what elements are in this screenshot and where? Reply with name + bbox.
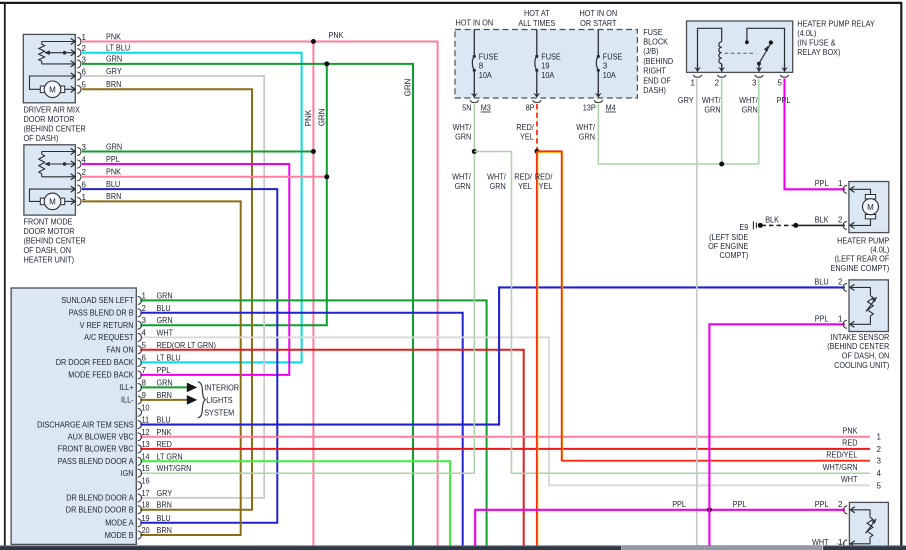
wire PPL branch up x709.4 -> intake sensor pin1 [709, 324, 845, 510]
wire BLU control head pin11 -> up x499.1 -> intake sensor pin2 [140, 287, 845, 424]
svg-text:LIGHTS: LIGHTS [206, 396, 232, 405]
M1 pot lead pin 1 [42, 41, 75, 43]
svg-text:LT GRN: LT GRN [157, 452, 183, 461]
control head pin 6 connector bracket [138, 358, 142, 366]
svg-text:GRN: GRN [106, 55, 122, 64]
control head pin 3 connector bracket [138, 321, 142, 329]
svg-text:BLU: BLU [814, 278, 828, 287]
intake sensor pin2 connector [850, 284, 854, 290]
M2 pot wiper pin 4 [48, 163, 75, 165]
wire PNK branch at x313.4 down to bottom (junction at top) [312, 42, 314, 547]
wire WHT/GRN relay pin3 down to y164 [758, 79, 760, 165]
M1 pin 2 connector symbol + labels [71, 50, 75, 56]
intake sensor thermistor [850, 287, 871, 295]
svg-text:M: M [49, 86, 56, 95]
svg-text:(BEHIND CENTER: (BEHIND CENTER [24, 236, 86, 245]
wire BLK heater pump pin2 solid segment [796, 224, 845, 226]
svg-text:E9: E9 [739, 223, 748, 232]
wire PPL sunload row from bottom x475.2 -> right -> sunload sensor pin2 [475, 510, 845, 546]
svg-text:SYSTEM: SYSTEM [204, 409, 234, 418]
svg-text:FUSE: FUSE [541, 52, 561, 61]
wire BRN M1 pin5 -> down x252 -> control head pin18 [82, 89, 252, 509]
svg-text:DR BLEND DOOR A: DR BLEND DOOR A [66, 494, 134, 503]
svg-text:OF ENGINE: OF ENGINE [708, 242, 748, 251]
svg-text:GRY: GRY [157, 489, 173, 498]
svg-text:(BEHIND CENTER: (BEHIND CENTER [24, 124, 86, 133]
control head pin 9 connector bracket [138, 396, 142, 404]
sunload sensor pin2 connector [850, 507, 854, 513]
control head pin 15 connector bracket [138, 469, 142, 477]
heater pump motor internals [850, 189, 871, 196]
svg-text:BLU: BLU [106, 180, 120, 189]
svg-text:1: 1 [690, 78, 695, 87]
junction dot2 x326.8 y176.8 [324, 174, 329, 179]
svg-text:16: 16 [142, 477, 151, 486]
fuse F3 element [597, 30, 599, 56]
svg-text:2: 2 [142, 304, 147, 313]
control head pin 19 connector bracket [138, 519, 142, 527]
svg-text:12: 12 [142, 428, 151, 437]
relay switch fixed contact from pin5 [747, 28, 785, 72]
wire RED control head pin5 -> down x523.7 to bottom [140, 350, 523, 546]
fuse F8 exit arrow + connector [471, 93, 478, 98]
ground E9 symbol bars [752, 221, 754, 229]
wire PPL branch down x709.4 to bottom [708, 510, 710, 546]
svg-text:5: 5 [142, 341, 147, 350]
svg-text:10A: 10A [541, 71, 555, 80]
svg-text:2: 2 [715, 78, 720, 87]
svg-text:INTERIOR: INTERIOR [204, 384, 239, 393]
control head pin 16 connector bracket [138, 482, 142, 490]
svg-text:PPL: PPL [672, 500, 686, 509]
wire RED control head pin13 -> right edge row 2 [140, 448, 870, 450]
svg-text:6: 6 [82, 67, 87, 76]
wire RED/YEL branch -> down x561.6 -> right edge row 3 (red) [537, 151, 870, 460]
svg-text:BLOCK: BLOCK [643, 38, 668, 47]
svg-text:10A: 10A [479, 71, 493, 80]
svg-text:PNK: PNK [106, 32, 122, 41]
svg-text:14: 14 [142, 452, 151, 461]
wire BRN M2 pin1 -> down x240.7 -> control head pin20 [82, 201, 241, 535]
wire PPL relay pin5 -> heater pump pin1 [785, 79, 845, 190]
svg-text:GRN: GRN [157, 316, 173, 325]
svg-text:PPL: PPL [106, 155, 120, 164]
fuse F19 element [536, 30, 538, 56]
front mode door motor M2 box [24, 145, 76, 215]
heater pump pin1 connector [850, 186, 854, 192]
svg-text:PNK: PNK [157, 428, 173, 437]
svg-text:1: 1 [877, 433, 882, 442]
svg-text:BRN: BRN [106, 80, 122, 89]
svg-text:4: 4 [877, 469, 882, 478]
wire GRN control head pin8 ILL+ [140, 386, 187, 388]
control head pin 11 connector bracket [138, 421, 142, 429]
svg-text:1: 1 [838, 179, 843, 188]
svg-text:(LEFT SIDE: (LEFT SIDE [709, 233, 748, 242]
control head pin 8 connector bracket [138, 383, 142, 391]
svg-text:4: 4 [142, 328, 147, 337]
relay pin 5 arrow/connector/number [781, 67, 788, 72]
svg-text:FUSE: FUSE [479, 52, 499, 61]
svg-text:OF DASH, ON: OF DASH, ON [24, 246, 72, 255]
svg-text:(4.0L): (4.0L) [870, 246, 889, 255]
svg-text:(BEHIND CENTER: (BEHIND CENTER [827, 342, 889, 351]
svg-text:V REF RETURN: V REF RETURN [80, 321, 134, 330]
svg-text:2: 2 [838, 500, 843, 509]
svg-text:10A: 10A [603, 71, 617, 80]
wire BRN control head pin9 ILL- [140, 399, 187, 401]
svg-text:M: M [867, 203, 874, 212]
wire GRN M2 pin3 ends at junction dot1 on PNK vertical [82, 151, 313, 153]
wire BLU M2 pin6 -> down x277.3 -> control head pin19 [82, 189, 277, 523]
svg-text:GRN: GRN [106, 142, 122, 151]
M1 motor symbol [30, 76, 75, 89]
svg-text:COMPT): COMPT) [720, 251, 749, 260]
wire WHT/GRN branch -> down x511.5 -> right edge row 4 [474, 152, 870, 474]
svg-text:PPL: PPL [157, 366, 171, 375]
svg-text:GRN: GRN [455, 182, 471, 191]
svg-text:1: 1 [838, 314, 843, 323]
svg-text:FUSE: FUSE [643, 28, 663, 37]
junction dot1 x313.4 y151.5 [311, 149, 316, 154]
relay coil [719, 42, 722, 64]
svg-text:ALL TIMES: ALL TIMES [518, 19, 555, 28]
svg-text:6: 6 [142, 353, 147, 362]
wire BLU control head pin2 -> down x462.7 to bottom [140, 313, 462, 546]
svg-text:DASH): DASH) [643, 86, 666, 95]
svg-text:PNK: PNK [106, 168, 122, 177]
svg-text:GRY: GRY [106, 67, 122, 76]
svg-text:INTAKE SENSOR: INTAKE SENSOR [831, 333, 890, 342]
svg-text:OF DASH): OF DASH) [24, 134, 59, 143]
svg-text:RED/YEL: RED/YEL [826, 450, 858, 459]
svg-text:BLK: BLK [815, 215, 829, 224]
wire GRY M1 pin6 -> down x264.2 -> control head pin17 [82, 76, 264, 498]
M2 pot lead pin 3 [42, 151, 75, 153]
svg-text:3: 3 [752, 78, 757, 87]
svg-text:(J/B): (J/B) [643, 47, 659, 56]
page border frame right [900, 2, 902, 546]
svg-text:GRN: GRN [455, 133, 471, 142]
control head pin 10 connector bracket [138, 408, 142, 416]
wire LT GRN control head pin14 -> down x450 to bottom [140, 461, 450, 546]
M1 pin 1 connector symbol + labels [71, 38, 75, 44]
svg-text:PPL: PPL [815, 314, 829, 323]
wire PNK M1 pin1 -> down at x437.6 to bottom [82, 42, 438, 547]
wire WHT/GRN fuse3 13P -> down x598.3 -> right to relay pin3 [598, 104, 759, 164]
svg-text:(LEFT REAR OF: (LEFT REAR OF [835, 255, 890, 264]
svg-text:BRN: BRN [157, 391, 173, 400]
svg-text:5: 5 [777, 78, 782, 87]
control head pin 5 connector bracket [138, 346, 142, 354]
sunload sensor pin1 connector [850, 541, 854, 547]
svg-text:8: 8 [479, 62, 484, 71]
svg-text:GRN: GRN [404, 78, 413, 96]
heater pump relay box [687, 21, 793, 72]
junction dot PPL x709.4 y509.8 [707, 507, 712, 512]
M2 pin 4 connector symbol + labels [71, 161, 75, 167]
svg-text:OF DASH, ON: OF DASH, ON [842, 352, 890, 361]
svg-text:PNK: PNK [843, 427, 859, 436]
control head pin 7 connector bracket [138, 371, 142, 379]
svg-text:GRN: GRN [157, 291, 173, 300]
svg-text:5N: 5N [462, 104, 471, 113]
svg-text:WHT/: WHT/ [487, 172, 506, 181]
control head pin 20 connector bracket [138, 531, 142, 539]
M2 pin 6 connector symbol + labels [71, 186, 75, 192]
svg-text:PPL: PPL [815, 500, 829, 509]
svg-text:BRN: BRN [157, 526, 173, 535]
svg-text:ENGINE COMPT): ENGINE COMPT) [831, 264, 890, 273]
driver air mix door motor M1 box [23, 34, 75, 102]
svg-text:BRN: BRN [106, 192, 122, 201]
svg-text:17: 17 [142, 489, 151, 498]
svg-text:BLU: BLU [157, 416, 171, 425]
M1 potentiometer [39, 44, 45, 61]
svg-text:PNK: PNK [329, 31, 345, 40]
relay switch arm from pin3 [758, 64, 760, 72]
ground E9 terminal dot [758, 223, 763, 228]
wire RED/YEL branch -> down x561.6 -> right edge row 3 (yellow stripe) [538, 152, 870, 461]
M2 pin 3 connector symbol + labels [71, 148, 75, 154]
svg-text:WHT/GRN: WHT/GRN [823, 463, 858, 472]
wire GRY relay pin1 down to bottom [696, 79, 698, 547]
svg-text:(4.0L): (4.0L) [797, 29, 816, 38]
svg-text:SUNLOAD SEN LEFT: SUNLOAD SEN LEFT [61, 296, 133, 305]
svg-text:9: 9 [142, 391, 147, 400]
svg-text:(IN FUSE &: (IN FUSE & [797, 39, 836, 48]
svg-text:1: 1 [142, 291, 147, 300]
control head pin 17 connector bracket [138, 494, 142, 502]
M2 pot lead pin 2 [42, 176, 75, 178]
svg-text:BLU: BLU [157, 514, 171, 523]
intake sensor pin1 connector [850, 321, 854, 327]
svg-text:(BEHIND: (BEHIND [643, 57, 673, 66]
wire WHT/GRN relay pin2 down to junction y164 [721, 79, 723, 165]
M2 potentiometer [39, 154, 45, 174]
svg-text:10: 10 [142, 403, 151, 412]
svg-text:20: 20 [142, 526, 151, 535]
svg-text:ILL-: ILL- [121, 396, 134, 405]
control head pin 13 connector bracket [138, 445, 142, 453]
wire BLK dashed segment to ground E9 [762, 224, 796, 226]
svg-text:3: 3 [603, 62, 608, 71]
svg-text:RED(OR LT GRN): RED(OR LT GRN) [157, 341, 217, 350]
svg-text:15: 15 [142, 464, 151, 473]
wire PNK M2 pin2 ends at junction dot2 on GRN vertical [82, 176, 327, 178]
svg-text:MODE FEED BACK: MODE FEED BACK [68, 371, 134, 380]
svg-text:13P: 13P [583, 104, 596, 113]
junction dot BLK x795.8 [793, 223, 798, 228]
svg-text:GRN: GRN [490, 182, 506, 191]
junction dot RED/YEL x537 y151.3 [535, 149, 540, 154]
svg-text:HEATER PUMP: HEATER PUMP [837, 236, 889, 245]
svg-text:BRN: BRN [157, 501, 173, 510]
svg-text:WHT/: WHT/ [452, 172, 471, 181]
svg-text:PNK: PNK [304, 109, 313, 126]
junction dot WHT/GRN x721.7 y164 [719, 162, 724, 167]
svg-text:A/C REQUEST: A/C REQUEST [84, 333, 134, 342]
wire RED/YEL main below junction to bottom (yellow stripe) [537, 152, 539, 546]
wire RED/YEL main below junction to bottom (red) [536, 151, 538, 546]
svg-text:FAN ON: FAN ON [106, 346, 133, 355]
svg-text:RED/: RED/ [514, 172, 532, 181]
svg-text:M3: M3 [481, 104, 492, 113]
svg-text:GRN: GRN [317, 108, 326, 126]
svg-text:RED/: RED/ [516, 123, 534, 132]
svg-text:2: 2 [838, 278, 843, 287]
svg-text:WHT: WHT [841, 475, 858, 484]
svg-text:11: 11 [142, 416, 150, 425]
svg-text:2: 2 [838, 215, 843, 224]
M1 pin 6 connector symbol + labels [71, 73, 75, 79]
svg-text:AUX BLOWER VBC: AUX BLOWER VBC [68, 433, 134, 442]
svg-text:OR START: OR START [580, 19, 616, 28]
svg-text:8: 8 [142, 378, 147, 387]
junction dot PNK x313.4 y41.5 [311, 39, 316, 44]
M2 motor symbol [30, 189, 75, 201]
svg-text:PPL: PPL [815, 179, 829, 188]
svg-text:HOT IN ON: HOT IN ON [580, 9, 618, 18]
control head pin 14 connector bracket [138, 457, 142, 465]
svg-text:WHT/: WHT/ [739, 96, 758, 105]
M1 pin 3 connector symbol + labels [71, 61, 75, 67]
wire WHT/GRN fuse8 5N -> junction -> control head pin15 [140, 104, 474, 473]
svg-text:PASS BLEND DOOR A: PASS BLEND DOOR A [58, 457, 134, 466]
M2 pin 1 connector symbol + labels [71, 198, 75, 204]
svg-text:13: 13 [142, 440, 151, 449]
relay actuation dashed link [725, 52, 756, 54]
junction dot GRN x326.8 y63.9 [324, 61, 329, 66]
svg-text:GRY: GRY [678, 96, 694, 105]
svg-text:M4: M4 [606, 104, 617, 113]
M1 pot wiper pin 2 [48, 52, 75, 54]
svg-text:7: 7 [142, 366, 147, 375]
svg-text:FRONT MODE: FRONT MODE [24, 218, 73, 227]
svg-text:3: 3 [142, 316, 147, 325]
bottom scrollbar light segment [623, 546, 823, 550]
svg-text:HOT AT: HOT AT [524, 9, 550, 18]
svg-text:RED: RED [842, 439, 858, 448]
svg-text:WHT/GRN: WHT/GRN [157, 464, 192, 473]
svg-text:HOT IN ON: HOT IN ON [456, 18, 494, 27]
svg-text:FUSE: FUSE [603, 52, 623, 61]
svg-text:WHT/: WHT/ [702, 96, 721, 105]
svg-text:2: 2 [877, 445, 882, 454]
relay pin 2 arrow/connector/number [718, 67, 725, 72]
svg-text:PPL: PPL [733, 500, 747, 509]
M1 pot lead pin 3 [42, 63, 75, 65]
page border frame top [0, 2, 902, 4]
svg-text:YEL: YEL [539, 182, 553, 191]
svg-text:YEL: YEL [518, 182, 532, 191]
wire WHT control head pin4 -> down x549 -> right edge row 5 [140, 337, 870, 485]
svg-text:19: 19 [541, 62, 550, 71]
M2 pin 2 connector symbol + labels [71, 174, 75, 180]
svg-text:COOLING UNIT): COOLING UNIT) [834, 361, 889, 370]
svg-text:DOOR MOTOR: DOOR MOTOR [24, 227, 75, 236]
svg-text:FRONT BLOWER VBC: FRONT BLOWER VBC [58, 445, 134, 454]
A/C control head 20-pin connector box [11, 288, 136, 544]
svg-text:WHT/: WHT/ [453, 123, 472, 132]
svg-text:GRN: GRN [157, 378, 173, 387]
arrow to interior lights (pin9) [187, 395, 198, 405]
svg-text:WHT: WHT [157, 328, 174, 337]
svg-text:HEATER UNIT): HEATER UNIT) [24, 255, 75, 264]
svg-text:END OF: END OF [643, 76, 671, 85]
control head pin 1 connector bracket [138, 296, 142, 304]
svg-text:IGN: IGN [121, 469, 134, 478]
sunload sensor box bottom right [849, 502, 888, 550]
heater pump pin2 connector [850, 222, 854, 228]
wire LT BLU M1 pin2 -> down x301.6 -> control head pin6 [82, 53, 302, 363]
interior lights system brace [198, 382, 206, 418]
sunload sensor thermistor [850, 510, 870, 518]
wire PNK control head pin12 -> right edge row 1 [140, 436, 870, 438]
svg-text:GRN: GRN [704, 106, 720, 115]
heater pump box [849, 182, 889, 233]
wire RED/YEL fuse19 8P dashed segment (yellow base) [536, 104, 538, 151]
control head pin 4 connector bracket [138, 333, 142, 341]
svg-text:8P: 8P [526, 104, 535, 113]
wire RED/YEL fuse19 8P dashed segment (red dashes) [536, 104, 538, 151]
svg-text:DOOR MOTOR: DOOR MOTOR [24, 115, 75, 124]
relay pin 1 arrow/connector/number [694, 67, 701, 72]
fuse block J/B dashed box [455, 30, 637, 99]
control head pin 18 connector bracket [138, 506, 142, 514]
control head pin 12 connector bracket [138, 433, 142, 441]
svg-text:M: M [49, 198, 56, 207]
svg-text:YEL: YEL [520, 133, 534, 142]
svg-text:HEATER PUMP RELAY: HEATER PUMP RELAY [797, 19, 875, 28]
relay pin 3 arrow/connector/number [756, 67, 763, 72]
svg-text:DRIVER AIR MIX: DRIVER AIR MIX [24, 105, 81, 114]
relay coil circuit pin1->pin2 [698, 28, 722, 72]
wire PPL M2 pin4 -> down x289.3 -> control head pin7 [82, 164, 289, 375]
wire WHT sunload sensor pin1 stub [836, 543, 845, 545]
svg-text:3: 3 [877, 457, 882, 466]
svg-text:GRN: GRN [579, 133, 595, 142]
svg-text:DR DOOR FEED BACK: DR DOOR FEED BACK [56, 358, 135, 367]
svg-text:MODE A: MODE A [105, 519, 134, 528]
svg-text:RED: RED [157, 440, 173, 449]
intake sensor box [849, 280, 888, 332]
svg-text:RELAY BOX): RELAY BOX) [797, 48, 841, 57]
svg-text:BLK: BLK [765, 215, 779, 224]
control head pin 2 connector bracket [138, 309, 142, 317]
wire GRN control head pin1 -> down x486.6 to bottom [140, 300, 486, 546]
bottom scrollbar track [0, 546, 906, 550]
svg-text:DR BLEND DOOR B: DR BLEND DOOR B [66, 506, 134, 515]
fuse F3 exit arrow + connector [595, 93, 602, 98]
fuse F19 exit arrow + connector [533, 93, 540, 98]
junction dot WHT/GRN x474.3 y151.5 [472, 149, 477, 154]
svg-text:18: 18 [142, 501, 151, 510]
svg-text:LT BLU: LT BLU [106, 44, 130, 53]
svg-text:LT BLU: LT BLU [157, 353, 181, 362]
fuse F8 element [473, 30, 475, 56]
wire GRN M1 pin3 -> down at x413 to bottom [82, 64, 413, 546]
svg-text:19: 19 [142, 514, 151, 523]
svg-text:ILL+: ILL+ [119, 383, 134, 392]
svg-text:WHT/: WHT/ [576, 123, 595, 132]
wire GRN branch at x326.8 down -> control head pin3 [140, 64, 326, 325]
svg-text:5: 5 [877, 481, 882, 490]
svg-text:GRN: GRN [742, 106, 758, 115]
arrow to interior lights (pin8) [187, 383, 198, 393]
svg-text:BLU: BLU [157, 304, 171, 313]
svg-text:RIGHT: RIGHT [643, 67, 666, 76]
